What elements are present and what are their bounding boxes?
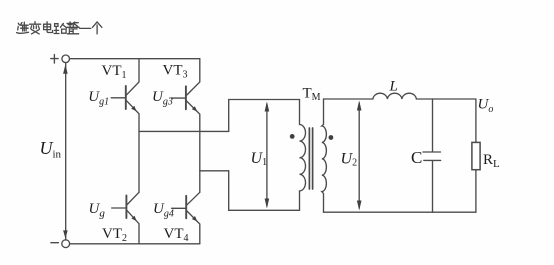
- svg-text:Uo: Uo: [478, 97, 494, 116]
- svg-text:VT1: VT1: [102, 63, 127, 81]
- svg-text:C: C: [411, 148, 422, 167]
- svg-text:VT4: VT4: [164, 226, 189, 244]
- svg-text:Ug: Ug: [89, 201, 106, 220]
- svg-text:Ug1: Ug1: [88, 89, 109, 108]
- svg-text:VT2: VT2: [102, 226, 127, 244]
- svg-text:VT3: VT3: [163, 63, 188, 81]
- svg-text:TM: TM: [303, 86, 321, 104]
- svg-text:Ug4: Ug4: [153, 201, 174, 220]
- svg-text:Uin: Uin: [40, 138, 62, 161]
- svg-text:RL: RL: [483, 152, 500, 170]
- svg-text:U2: U2: [341, 150, 358, 168]
- svg-text:L: L: [389, 79, 398, 95]
- svg-text:Ug3: Ug3: [152, 89, 173, 108]
- svg-text:U1: U1: [251, 150, 268, 168]
